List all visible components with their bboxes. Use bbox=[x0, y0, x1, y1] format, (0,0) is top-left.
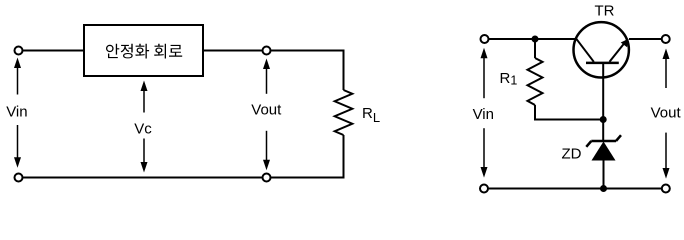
wire RL bottom branch bbox=[343, 135, 345, 178]
wire top-left rail bbox=[23, 50, 85, 52]
Vc arrow down bbox=[141, 139, 148, 173]
block "안정화 회로" (stabilization circuit) bbox=[84, 25, 203, 76]
svg-text:ZD: ZD bbox=[562, 146, 582, 163]
terminal input top bbox=[15, 47, 23, 55]
wire top rail box to RL bbox=[203, 50, 345, 52]
wire bottom rail right circuit bbox=[488, 188, 662, 190]
Vin arrow down bbox=[14, 125, 21, 168]
svg-text:R1: R1 bbox=[500, 70, 518, 88]
svg-text:Vin: Vin bbox=[473, 106, 494, 123]
junction R1 top rail bbox=[532, 36, 539, 43]
resistor RL bbox=[335, 90, 353, 135]
terminal right input top bbox=[481, 35, 489, 43]
wire zener bottom bbox=[603, 160, 605, 189]
svg-text:Vout: Vout bbox=[251, 102, 282, 119]
zener diode ZD bbox=[586, 135, 621, 160]
Vin right arrow down bbox=[481, 128, 488, 177]
wire R1 bottom bbox=[535, 105, 603, 120]
transistor TR bbox=[574, 22, 629, 77]
svg-text:TR: TR bbox=[595, 3, 615, 20]
wire top rail left bbox=[489, 38, 576, 40]
wire bottom rail bbox=[23, 177, 345, 179]
junction zener bottom rail bbox=[600, 185, 607, 192]
resistor R1 bbox=[528, 58, 543, 105]
svg-text:Vout: Vout bbox=[651, 105, 682, 122]
Vin right arrow up bbox=[481, 48, 488, 98]
terminal right output bottom bbox=[662, 185, 670, 193]
Vout right arrow down bbox=[663, 133, 670, 179]
junction base node bbox=[600, 116, 607, 123]
wire top rail right bbox=[629, 38, 662, 40]
wire base lead bbox=[602, 62, 604, 141]
svg-text:Vin: Vin bbox=[6, 104, 27, 121]
Vout arrow down bbox=[263, 131, 270, 170]
Vout arrow up bbox=[263, 59, 270, 94]
wire R1 top bbox=[534, 39, 536, 58]
Vc arrow up bbox=[141, 81, 148, 113]
wire RL top branch bbox=[343, 51, 345, 91]
terminal output bottom bbox=[263, 174, 271, 182]
terminal output top bbox=[263, 47, 271, 55]
terminal right output top bbox=[662, 35, 670, 43]
svg-text:Vc: Vc bbox=[134, 121, 152, 138]
terminal input bottom bbox=[15, 174, 23, 182]
Vin arrow up bbox=[14, 58, 21, 95]
terminal right input bottom bbox=[480, 185, 488, 193]
Vout right arrow up bbox=[663, 49, 670, 89]
